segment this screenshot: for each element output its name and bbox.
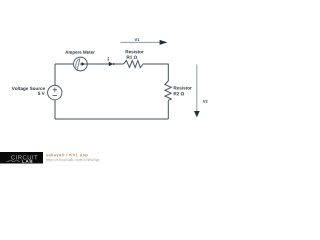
label i xyxy=(107,57,110,61)
voltage source VS1 (5 V) xyxy=(48,85,62,99)
footer credit line xyxy=(46,153,88,157)
label Voltage Source xyxy=(12,87,45,91)
ampere meter AM1 xyxy=(74,57,88,71)
label R2 ohm xyxy=(174,92,184,95)
wire from resistor R1 to top-right corner down to resistor R2 xyxy=(143,64,168,81)
wire left vertical from corner down to voltage source top xyxy=(54,64,56,86)
wire from ammeter to resistor R1 xyxy=(88,63,124,65)
annotation arrow V2 across R2 xyxy=(196,65,198,113)
label Resistor xyxy=(126,50,144,53)
label V2 xyxy=(203,100,208,103)
wire from voltage source bottom to bottom-left corner xyxy=(54,100,56,119)
footer CircuitLab logo box xyxy=(0,152,43,164)
label 5 V xyxy=(38,92,45,95)
wire from resistor R2 bottom to bottom-right corner xyxy=(167,100,169,119)
footer url line xyxy=(46,158,99,162)
annotation arrow V1 across R1 xyxy=(121,41,161,43)
wire bottom horizontal xyxy=(55,118,168,120)
wire from top-left corner to ammeter xyxy=(55,63,74,65)
label R1 ohm xyxy=(127,56,137,59)
current arrow i on wire xyxy=(109,62,115,66)
resistor R1 (horizontal zigzag) xyxy=(124,61,144,68)
label V1 xyxy=(135,38,140,41)
label Resistor xyxy=(174,86,192,89)
label Ampere Meter xyxy=(65,51,95,55)
resistor R2 (vertical zigzag) xyxy=(165,81,171,100)
